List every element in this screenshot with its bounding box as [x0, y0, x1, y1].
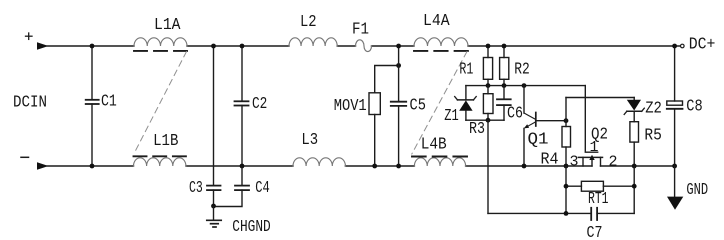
svg-text:R1: R1: [459, 61, 473, 80]
zener Z1: [444, 86, 476, 126]
inductor L1A: [134, 16, 187, 51]
svg-text:C3: C3: [189, 179, 203, 198]
node C2 bottom: [240, 164, 245, 169]
node RT1 left: [564, 184, 569, 189]
node R3 bottom: [486, 118, 491, 123]
resistor R4: [541, 98, 571, 170]
svg-text:L1B: L1B: [153, 132, 178, 151]
capacitor C5: [391, 46, 426, 166]
wire clamp bottom: [466, 119, 504, 121]
node DC+: [672, 44, 677, 49]
svg-text:F1: F1: [352, 21, 369, 40]
wire gate bus: [566, 97, 634, 99]
fuse F1: [352, 21, 372, 52]
capacitor C2: [235, 46, 268, 166]
svg-text:1: 1: [590, 139, 599, 156]
node C5 bottom: [396, 164, 401, 169]
svg-text:2: 2: [609, 153, 618, 170]
resistor R1: [459, 46, 492, 86]
svg-text:Z1: Z1: [444, 107, 459, 126]
capacitor C7: [488, 208, 634, 240]
node R5 bottom: [632, 164, 637, 169]
wire clamp bus: [466, 85, 585, 87]
wire Z2 node drop: [633, 166, 635, 213]
wire L4 coupling (dashed): [412, 52, 467, 155]
inductor L4B: [412, 135, 467, 166]
inductor L4A: [414, 12, 468, 51]
node R2 top: [502, 44, 507, 49]
svg-text:CHGND: CHGND: [232, 218, 270, 237]
svg-text:C7: C7: [587, 224, 603, 239]
svg-text:L1A: L1A: [154, 16, 181, 35]
varistor MOV1: [334, 66, 399, 167]
svg-text:RT1: RT1: [588, 190, 609, 209]
node C8 bottom: [672, 164, 677, 169]
node C2 top: [240, 44, 245, 49]
capacitor C6: [497, 86, 523, 124]
svg-text:L4A: L4A: [423, 12, 450, 31]
node R2/C6: [502, 83, 507, 88]
terminal + (positive input): [26, 33, 49, 50]
wire R3 node drop: [487, 120, 489, 213]
inductor L2: [289, 13, 337, 46]
node CHGND junction: [211, 204, 216, 209]
terminal DC+: [681, 36, 716, 55]
node R1/R3: [486, 83, 491, 88]
svg-text:GND: GND: [686, 181, 708, 200]
ground GND: [667, 166, 708, 210]
node MOV1 tap: [396, 63, 401, 68]
svg-text:C4: C4: [255, 179, 270, 198]
svg-text:DCIN: DCIN: [13, 94, 47, 113]
svg-text:Z2: Z2: [645, 100, 662, 119]
capacitor C8 (polarized): [667, 46, 703, 166]
capacitor C3 (top rail to chassis gnd): [189, 46, 221, 207]
svg-text:L4B: L4B: [421, 135, 447, 154]
svg-text:MOV1: MOV1: [334, 97, 367, 116]
transistor Q2 (MOSFET): [570, 86, 618, 171]
resistor R3: [469, 86, 493, 139]
resistor R5: [630, 122, 662, 166]
svg-text:C5: C5: [410, 96, 426, 115]
node C1 bottom: [90, 164, 95, 169]
svg-text:L3: L3: [301, 131, 318, 150]
inductor L1B: [134, 132, 187, 166]
wire top rail: [47, 45, 680, 47]
svg-text:C2: C2: [252, 95, 267, 114]
inductor L3: [293, 131, 345, 166]
svg-text:3: 3: [570, 153, 579, 170]
node Q1 base / R4: [564, 118, 569, 123]
terminal - (negative input): [21, 157, 49, 170]
thermistor RT1: [566, 181, 634, 209]
zener Z2: [624, 98, 662, 122]
svg-text:C6: C6: [507, 105, 523, 124]
wire R4 node drop: [565, 166, 567, 213]
svg-text:DC+: DC+: [689, 36, 716, 55]
svg-text:L2: L2: [300, 13, 317, 32]
transistor Q1: [524, 86, 549, 166]
svg-text:R2: R2: [514, 61, 530, 80]
node C3 top: [211, 44, 216, 49]
svg-text:R5: R5: [644, 127, 662, 146]
node C7 left bus: [564, 211, 569, 216]
node Q1 emitter: [522, 164, 527, 169]
node MOV1 bottom: [372, 164, 377, 169]
node R1 top: [486, 44, 491, 49]
svg-text:C1: C1: [101, 92, 117, 111]
node Q1 collector tap: [522, 83, 527, 88]
ground CHGND (chassis): [207, 207, 271, 238]
svg-text:R3: R3: [469, 120, 485, 139]
svg-text:Q1: Q1: [528, 131, 549, 150]
wire Q1 base: [536, 120, 566, 122]
capacitor C4 (bottom rail to chassis gnd): [214, 166, 270, 207]
node RT1 right: [632, 184, 637, 189]
svg-text:C8: C8: [686, 98, 702, 117]
resistor R2: [500, 46, 530, 86]
node R4 bottom: [564, 164, 569, 169]
svg-text:R4: R4: [541, 151, 559, 170]
capacitor C1: [86, 46, 117, 166]
wire L1 coupling (dashed): [134, 52, 187, 155]
node C1 top: [90, 44, 95, 49]
node C5 top: [396, 44, 401, 49]
wire bottom rail: [47, 165, 675, 167]
